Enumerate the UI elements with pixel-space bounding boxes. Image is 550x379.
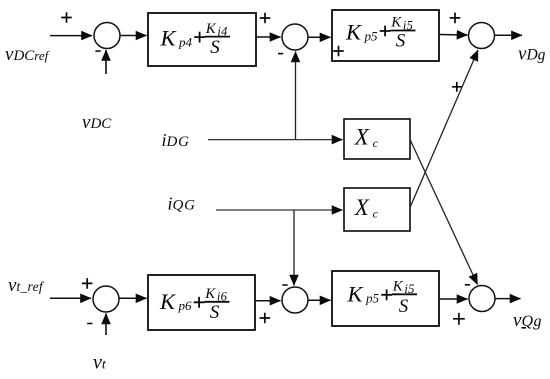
svg-text:K: K [390,15,402,31]
svg-text:X: X [354,195,370,220]
summing junction S6 [469,286,495,312]
wire iDG to block Xc1 [208,139,343,141]
wire S3 to output vDg [495,34,523,36]
svg-text:K: K [204,286,216,302]
minus sign at S1 feedback input [95,50,100,52]
svg-text:vDC: vDC [82,112,112,133]
block Kp5+Ki5/S bottom [332,271,439,326]
wire iQG to block Xc2 [216,209,343,211]
svg-text:vDg: vDg [518,44,546,65]
cross wire Xc2 up to S3 [410,50,478,208]
wire vt feedback into S4 [105,314,107,336]
svg-text:p6: p6 [178,298,193,313]
wire branch iDG up to S2 [295,52,297,140]
plus sign at S5 left input [260,313,271,324]
svg-text:p5: p5 [364,28,379,43]
block Kp5+Ki5/S top [332,10,439,61]
minus sign at S2 lower input [278,53,283,55]
svg-text:S: S [399,296,409,317]
block Xc1 [344,119,410,159]
cross wire Xc1 down to S6 [410,140,478,285]
svg-text:p4: p4 [178,35,193,50]
wire Kp5 top to S3 [439,34,468,37]
svg-text:S: S [210,37,220,58]
wire S1 to block Kp4 [120,35,147,37]
summing junction S1 [94,23,120,49]
wire S4 to block Kp6 [119,297,147,299]
block Kp6+Ki6/S [148,275,255,330]
wire branch iQG down to S5 [293,210,295,286]
block Kp4+Ki4/S [148,13,256,66]
plus sign at summing junction S2 left input [260,13,271,24]
summing junction S4 [93,286,119,312]
plus sign at summing junction S1 input [61,12,72,23]
wire Kp6 to S5 [255,300,281,302]
block Xc2 [344,188,410,231]
plus sign at Kp5 lower-left corner [333,46,344,57]
svg-text:K: K [160,25,177,50]
svg-text:K: K [345,19,362,44]
svg-text:K: K [205,21,217,37]
plus sign on cross wire to S3 [452,82,462,92]
wire Kp5 bottom to S6 [439,298,468,300]
wire S5 to block Kp5 bottom [308,299,331,301]
minus sign at S4 feedback input [87,323,92,325]
svg-text:c: c [373,207,379,221]
svg-text:K: K [159,289,176,314]
svg-text:c: c [373,136,379,150]
plus sign at S6 lower-left [453,313,465,325]
wire vDCref to S1 [50,35,92,37]
svg-text:S: S [396,31,406,52]
summing junction S3 [469,23,495,49]
svg-text:p5: p5 [365,290,380,305]
svg-text:K: K [392,279,404,295]
wire S6 to output vQg [495,298,521,300]
svg-text:vt_ref: vt_ref [8,275,45,296]
plus sign at summing junction S3 left input [450,13,461,24]
wire vDC feedback into S1 [105,50,107,74]
svg-text:S: S [210,302,220,323]
svg-text:vDCref: vDCref [5,44,51,65]
wire Kp4 to S2 [256,36,281,38]
plus sign at summing junction S4 input [82,278,93,289]
svg-text:K: K [347,281,364,306]
svg-text:vQg: vQg [513,310,542,331]
wire vt_ref to S4 [50,297,91,299]
summing junction S2 [282,24,308,50]
minus sign at S6 top input [465,284,470,286]
summing junction S5 [282,287,308,313]
wire S2 to block Kp5 top [308,36,331,38]
minus sign at S5 top input [282,284,287,286]
svg-text:X: X [354,124,370,149]
